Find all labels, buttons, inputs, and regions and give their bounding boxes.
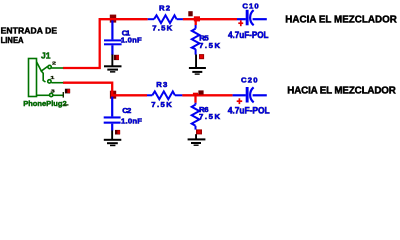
svg-text:4.7uF-POL: 4.7uF-POL xyxy=(228,30,269,40)
svg-text:ENTRADA DE: ENTRADA DE xyxy=(1,25,58,35)
polarity plus of C20 xyxy=(237,98,243,104)
no-connect dot at connector pin 3 xyxy=(65,89,70,94)
capacitor C2 xyxy=(104,97,121,131)
ground below C2 xyxy=(104,130,122,146)
svg-text:HACIA EL MEZCLADOR: HACIA EL MEZCLADOR xyxy=(285,15,397,26)
capacitor C1 xyxy=(104,20,122,55)
pin 3 end tick xyxy=(62,92,64,98)
tail dash after PhonePlug2 xyxy=(64,104,69,106)
connector J1 contact 2 (ring) xyxy=(41,71,63,83)
junction dot below R6 xyxy=(196,129,202,134)
polarity plus of C10 xyxy=(238,20,243,26)
junction node A (top-left T at C1) xyxy=(110,15,116,23)
capacitor C10 (polarized) xyxy=(237,10,267,25)
junction node B (top at R5) xyxy=(188,11,200,21)
svg-text:C20: C20 xyxy=(241,76,258,85)
capacitor C20 (polarized) xyxy=(233,87,267,103)
svg-text:R2: R2 xyxy=(159,3,170,12)
wire input top row from J1 pin to rail and top rail to R2 xyxy=(63,19,148,68)
junction node C (bottom-left T at C2) xyxy=(110,91,116,99)
connector J1 body xyxy=(29,59,37,97)
wire bottom between R3 and C20 xyxy=(182,94,232,96)
junction node D (bottom at R6) xyxy=(193,90,204,96)
svg-text:LINEA: LINEA xyxy=(1,35,24,45)
svg-text:HACIA EL MEZCLADOR: HACIA EL MEZCLADOR xyxy=(287,85,396,96)
svg-text:PhonePlug2: PhonePlug2 xyxy=(23,99,66,108)
ground below R6 xyxy=(188,134,206,146)
svg-text:1.0nF: 1.0nF xyxy=(121,117,142,126)
svg-text:R3: R3 xyxy=(156,80,167,89)
svg-text:7.5K: 7.5K xyxy=(151,100,172,109)
svg-text:4.7uF-POL: 4.7uF-POL xyxy=(228,105,270,115)
connector J1 contact 1 (tip) xyxy=(37,62,64,71)
wire stub to R6 xyxy=(194,95,196,103)
junction dot below C1 xyxy=(114,55,119,60)
svg-text:C2: C2 xyxy=(122,106,131,115)
ground below R5 xyxy=(189,55,206,75)
resistor R3 xyxy=(147,91,182,99)
wire top between R2 and C10 xyxy=(183,18,237,20)
connector J1 contact 3 (sleeve) xyxy=(37,93,64,96)
svg-text:1.0nF: 1.0nF xyxy=(121,36,142,45)
svg-text:C10: C10 xyxy=(242,1,258,10)
wire input second row from J1 pin down to bottom row and to R3 xyxy=(63,83,147,96)
resistor R6 xyxy=(192,103,200,130)
junction dot below R5 xyxy=(199,54,204,59)
text ENTRADA DE LINEA xyxy=(1,25,58,45)
wire stub to R5 xyxy=(195,19,197,25)
junction dot below C2 xyxy=(115,130,120,135)
svg-text:7.5K: 7.5K xyxy=(199,112,220,121)
resistor R2 xyxy=(148,15,183,23)
resistor R5 xyxy=(192,25,200,55)
svg-text:7.5K: 7.5K xyxy=(152,24,172,33)
svg-text:7.5K: 7.5K xyxy=(199,41,220,50)
svg-text:J1: J1 xyxy=(41,50,51,60)
ground below C1 xyxy=(104,55,122,73)
